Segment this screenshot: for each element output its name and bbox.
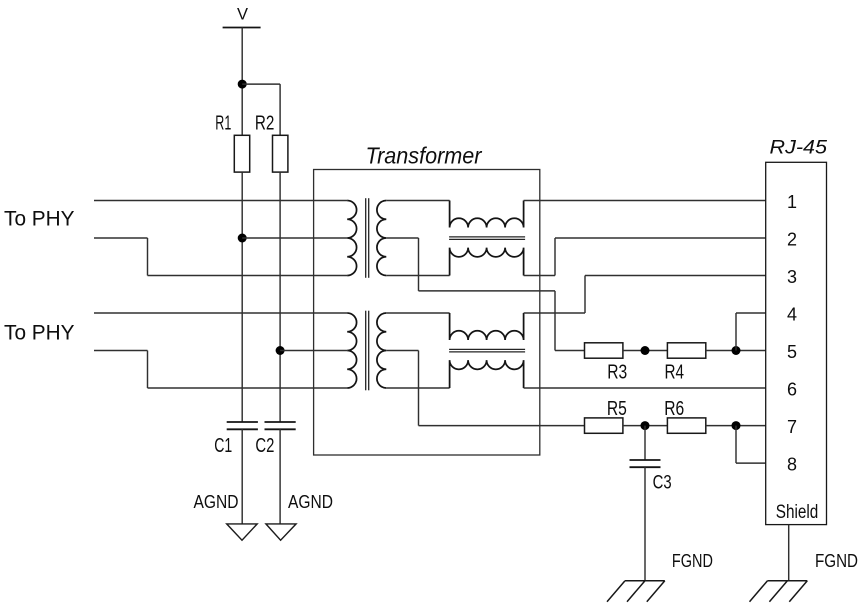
transformer T1 primary winding — [347, 201, 356, 276]
RJ-45 connector box — [766, 162, 827, 524]
svg-text:AGND: AGND — [288, 492, 333, 512]
wire R6 to pin7 — [706, 425, 766, 427]
wire center tap T1 primary — [242, 237, 347, 239]
transformer box — [314, 170, 540, 456]
choke L2 bottom winding — [450, 360, 524, 388]
wire detour to R3 — [555, 350, 585, 352]
power rail V bar — [223, 27, 261, 29]
node V junction — [238, 80, 247, 89]
choke L1 core — [449, 236, 525, 238]
wire V to node — [241, 28, 243, 136]
resistor R2 — [273, 135, 288, 172]
capacitor C1 — [227, 421, 258, 423]
svg-text:FGND: FGND — [672, 551, 713, 571]
svg-text:C1: C1 — [214, 435, 232, 457]
wire shield to FGND — [788, 525, 790, 581]
svg-text:To PHY: To PHY — [4, 207, 75, 231]
svg-text:R2: R2 — [255, 113, 275, 135]
wire R5 to R6 — [623, 425, 668, 427]
ground AGND left — [227, 524, 258, 540]
wire T2 secondary top — [386, 312, 449, 314]
wire T2 secondary center tap detour — [386, 350, 418, 352]
capacitor C3 — [630, 459, 661, 461]
wire R1 down to C1 — [241, 172, 243, 422]
wire C1 to AGND — [241, 429, 243, 524]
transformer T2 core — [365, 311, 367, 391]
wire pair2 minus stepped — [94, 350, 148, 352]
earth ground FGND right — [768, 580, 808, 582]
transformer T1 core — [365, 198, 367, 278]
wire pin2 elbow — [524, 275, 555, 277]
svg-text:7: 7 — [787, 417, 797, 437]
svg-text:6: 6 — [787, 379, 797, 399]
svg-text:R6: R6 — [664, 398, 684, 420]
node R1 center-tap junction — [238, 234, 247, 243]
svg-text:FGND: FGND — [815, 551, 858, 571]
wire T1 secondary center tap detour — [386, 237, 418, 239]
wire T1 secondary bottom — [386, 275, 449, 277]
resistor R6 — [667, 418, 705, 433]
wire junction to C3 — [644, 426, 646, 460]
resistor R1 — [234, 135, 249, 172]
svg-text:5: 5 — [787, 342, 797, 362]
wire T1 secondary top — [386, 200, 449, 202]
svg-text:V: V — [237, 6, 248, 24]
svg-text:RJ-45: RJ-45 — [770, 136, 828, 158]
capacitor C2 — [265, 421, 296, 423]
earth ground FGND left — [625, 580, 665, 582]
svg-text:C3: C3 — [653, 472, 672, 493]
wire pair2 plus — [94, 312, 347, 314]
wire T2 secondary bottom — [386, 387, 449, 389]
resistor R3 — [585, 343, 623, 358]
wire C2 to AGND — [279, 429, 281, 524]
choke L2 core — [449, 348, 525, 350]
wire center tap T2 primary — [280, 350, 347, 352]
wire pin3 detour — [524, 312, 585, 314]
svg-text:1: 1 — [787, 192, 797, 212]
wire node to R2 branch — [242, 83, 280, 85]
svg-text:R4: R4 — [664, 361, 684, 383]
svg-text:R5: R5 — [607, 398, 627, 420]
transformer T2 primary winding — [347, 313, 356, 388]
svg-text:AGND: AGND — [194, 492, 239, 512]
ground AGND right — [266, 524, 296, 540]
wire pair1 plus — [94, 200, 347, 202]
wire pin6 — [524, 387, 766, 389]
wire pin4 step — [735, 313, 737, 351]
svg-text:C2: C2 — [255, 435, 274, 457]
svg-text:8: 8 — [787, 454, 797, 474]
resistor R5 — [585, 418, 623, 433]
wire R3 to R4 — [623, 350, 668, 352]
svg-text:R1: R1 — [215, 113, 231, 135]
wire R4 to pin5 — [706, 350, 766, 352]
wire C3 to FGND — [644, 467, 646, 581]
svg-text:R3: R3 — [607, 361, 627, 383]
transformer T2 secondary winding — [377, 313, 386, 388]
wire pin8 step — [735, 426, 737, 464]
wire pin1 — [524, 200, 766, 202]
svg-text:To PHY: To PHY — [4, 320, 75, 344]
transformer T1 secondary winding — [377, 201, 386, 276]
svg-text:4: 4 — [787, 304, 797, 324]
wire pair1 minus stepped — [94, 237, 148, 239]
node pin4 branch junction — [732, 346, 741, 355]
node R2 center-tap junction — [276, 346, 285, 355]
svg-text:2: 2 — [787, 229, 797, 249]
node R3 R4 junction — [641, 346, 650, 355]
svg-text:Transformer: Transformer — [366, 142, 483, 168]
choke L2 top winding — [450, 313, 524, 340]
node R5 R6 junction — [641, 421, 650, 430]
wire R2 down to C2 — [279, 172, 281, 422]
node pin8 branch junction — [732, 421, 741, 430]
svg-text:Shield: Shield — [776, 502, 819, 523]
resistor R4 — [667, 343, 705, 358]
svg-text:3: 3 — [787, 267, 797, 287]
choke L1 top winding — [450, 201, 524, 228]
choke L1 bottom winding — [450, 248, 524, 276]
